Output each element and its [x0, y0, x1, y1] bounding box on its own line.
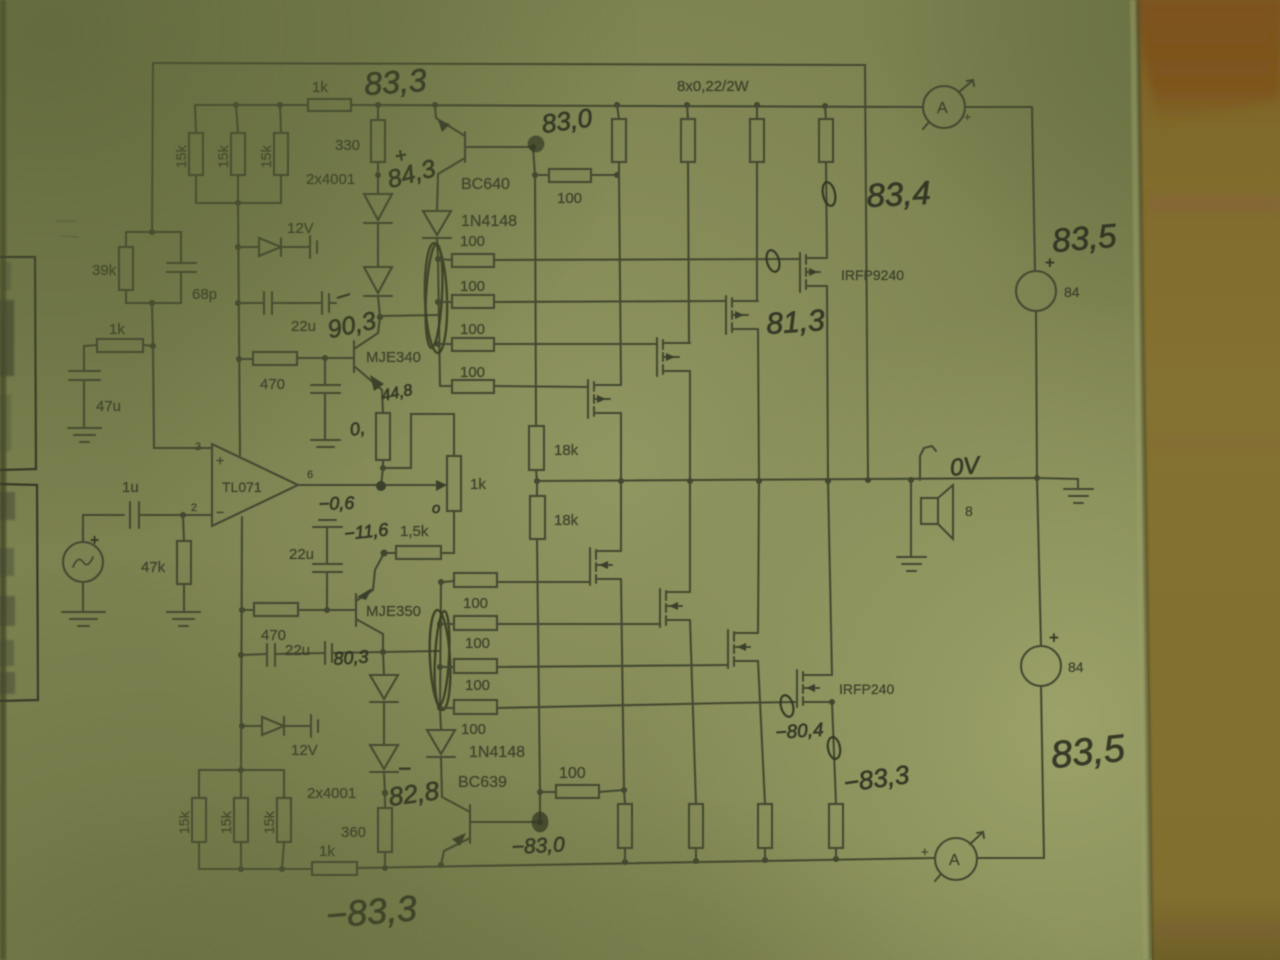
wire feedback top rail: [153, 63, 865, 65]
wire P3 to out: [689, 371, 691, 481]
ellipse scribble bottom: [427, 610, 452, 711]
capacitor 22u bottom pair: [241, 654, 267, 655]
resistor 15k C: [280, 105, 281, 133]
diode 2x4001 bottom B: [370, 745, 398, 769]
wire down to pin3: [153, 346, 212, 448]
wire BC639 node up: [539, 792, 541, 822]
dark left film edge: [0, 0, 6, 960]
wire bias spine upper: [238, 203, 240, 455]
ground 47u: [68, 427, 101, 429]
blob junction -83,0: [532, 812, 548, 832]
node N4 bottom corner: [829, 699, 835, 705]
resistor 1.5k: [396, 546, 441, 559]
node pin2: [180, 512, 186, 518]
wire gate3: [494, 343, 657, 345]
node sense bottom right: [621, 787, 627, 793]
blob junction 83,0: [528, 136, 544, 152]
resistor 100 gate2: [438, 301, 452, 303]
resistor 1k bottom: [312, 862, 357, 875]
wire pot bottom: [441, 511, 454, 553]
resistor 1k input: [97, 339, 143, 352]
svg-text:84: 84: [1068, 659, 1084, 675]
svg-text:8x0,22/2W: 8x0,22/2W: [677, 78, 750, 95]
diode 12V bottom: [242, 725, 262, 727]
capacitor 47u: [84, 345, 97, 371]
transistor MJE340: [353, 341, 355, 372]
wire feedback left vertical: [152, 63, 153, 232]
svg-text:83,4: 83,4: [866, 174, 932, 214]
wire gate4b: [497, 702, 797, 708]
probe 0V hook: [920, 446, 936, 480]
resistor 100 gate2 bottom: [440, 623, 454, 625]
mosfet P3: [656, 338, 658, 376]
resistor 0.22 bottom1: [618, 804, 632, 848]
svg-text:−80,4: −80,4: [775, 720, 824, 744]
resistor 330: [377, 105, 379, 120]
capacitor 68p: [152, 232, 181, 263]
resistor 100 gate3: [438, 343, 452, 345]
node 15k top: [238, 767, 244, 773]
transistor BC639: [442, 797, 470, 812]
svg-text:8: 8: [965, 503, 973, 519]
resistor 15k bottomB: [240, 842, 242, 869]
node bias dots: [235, 244, 242, 362]
diode 1N4148 bottom: [440, 708, 441, 730]
node 470b right: [324, 607, 330, 613]
wire N1 verticals: [620, 481, 622, 551]
node 15k bottom: [235, 200, 241, 206]
svg-text:+: +: [964, 110, 971, 124]
wire +supply rail: [195, 104, 308, 106]
wire gate4: [494, 386, 588, 387]
speaker: [910, 480, 912, 556]
wire right rail down: [1032, 107, 1035, 271]
diode 2x4001 top A: [364, 194, 392, 220]
resistor R 1k top: [308, 99, 351, 111]
capacitor 1u: [83, 514, 124, 516]
wire emitter node to pot top: [383, 414, 454, 468]
node 100 sense left: [532, 172, 538, 178]
wire gate1b: [497, 581, 590, 583]
svg-text:A: A: [937, 100, 948, 117]
mosfet P1 IRFP9240: [799, 253, 801, 292]
wire feedback down to output: [865, 65, 868, 480]
vignette overlays: [0, 0, 640, 540]
wire P4 to out: [620, 413, 622, 481]
ground 47k: [167, 611, 200, 613]
node 330 bottom: [375, 172, 381, 178]
diode 2x4001 bottom A: [383, 652, 384, 675]
wire ladder spine bottom: [440, 582, 441, 708]
resistor MJE340 emitter: [376, 413, 390, 460]
wire collector to ladder spine: [383, 651, 440, 652]
ellipse scribble top: [423, 243, 449, 354]
node 1k right: [150, 343, 156, 349]
printed labels: [92, 78, 1084, 869]
wire pin2 input: [183, 514, 212, 516]
wire bottom rail: [199, 868, 312, 870]
diode 12V top: [238, 246, 259, 248]
resistor 0.22 top4: [825, 106, 826, 119]
wire 39k to 1k node: [152, 303, 153, 346]
node pin6 junction: [376, 481, 386, 491]
wire gate3b: [497, 665, 728, 667]
wire N2 verticals: [689, 481, 691, 592]
node BC639 base right: [537, 819, 543, 825]
ammeter top: [923, 86, 965, 128]
ground source: [82, 582, 84, 611]
resistor 0.22 bottom3: [758, 804, 772, 848]
wire under source: [1036, 311, 1037, 478]
resistor 100 gate4 bottom: [440, 707, 454, 709]
wire N4 verticals: [828, 481, 832, 675]
wire base node down: [533, 147, 535, 175]
wire 18k spine top: [535, 175, 536, 426]
ammeter bottom: [935, 838, 977, 880]
capacitor 22u vertical bottom: [326, 572, 328, 610]
source 84 bottom: [1021, 646, 1061, 686]
wire output node line: [537, 478, 1037, 481]
wire bias spine lower: [241, 517, 242, 770]
resistor 100 gate1 bottom: [441, 581, 444, 583]
pot wiper arrow: [436, 480, 447, 491]
wire P2 to out: [758, 329, 759, 481]
wire bottom right corner: [977, 686, 1044, 858]
node BC640 base: [530, 144, 536, 150]
svg-text:+: +: [1045, 255, 1054, 272]
blob gate4b: [778, 694, 795, 718]
wire chain to ladder spine: [380, 315, 438, 316]
opamp TL071: [212, 444, 298, 526]
resistor 470 top: [239, 358, 253, 360]
mosfet N4 IRFP240: [796, 670, 798, 707]
svg-text:84: 84: [1064, 284, 1080, 300]
resistor 100 gate4: [440, 385, 452, 387]
node ladder dots: [435, 256, 441, 347]
wire 15k bottom tops: [199, 769, 284, 771]
note 90,3 overbar: [337, 294, 350, 298]
diode 2x4001 top B: [364, 267, 392, 293]
node 100b sense left: [537, 789, 543, 795]
node sense right: [614, 172, 620, 178]
wire N3 verticals: [758, 481, 759, 633]
svg-text:81,3: 81,3: [765, 304, 826, 341]
diode 1N4148 top: [423, 211, 451, 235]
resistor 15k bottomC: [282, 842, 284, 869]
node bottom rail dots: [238, 856, 839, 872]
svg-text:83,5: 83,5: [1051, 217, 1119, 260]
source signal: [63, 542, 103, 582]
wire rail after 1k: [351, 105, 923, 107]
blob phase top: [764, 249, 781, 273]
resistor 0.22 top2: [687, 105, 688, 119]
wire ammeter to right rail: [965, 106, 1032, 108]
svg-text:+: +: [1049, 630, 1058, 647]
mosfet N1: [589, 548, 591, 585]
svg-text:83,5: 83,5: [1049, 727, 1128, 777]
ground output right: [1037, 478, 1078, 489]
wire emitter node to out wire: [381, 468, 383, 486]
resistor 18k lower: [536, 481, 538, 496]
node 1.5k left: [381, 550, 388, 557]
handwritten annotations: [90, 62, 1128, 936]
resistor 15k bottomA: [198, 842, 200, 869]
resistor 39k: [126, 232, 152, 247]
resistor 0.22 top3: [756, 105, 758, 119]
wire ladder spine top: [438, 259, 440, 386]
wire bottom rail right part: [357, 858, 935, 868]
node 39k top/bottom: [149, 229, 155, 306]
mosfet N3: [727, 630, 729, 668]
node emitter res bottom: [380, 465, 386, 471]
node 470 right: [322, 355, 328, 361]
source 84 top: [1016, 271, 1056, 311]
transistor BC640: [435, 105, 465, 136]
wire gate2b: [497, 623, 660, 625]
resistor 0.22 bottom4: [829, 804, 843, 848]
wire pin6 out: [298, 484, 436, 486]
node MJE350 collector: [380, 649, 386, 655]
mosfet P4: [587, 380, 589, 418]
wire gate2: [494, 301, 726, 302]
wire to bottom source: [1037, 478, 1041, 646]
left margin: other sheet fragments: [0, 257, 38, 701]
wire 0.22#1 down to P4: [619, 175, 621, 385]
resistor 100 sense bottom: [540, 791, 556, 793]
node output dots: [534, 475, 1040, 484]
wire 15k bottoms: [196, 202, 281, 204]
node 360 top: [382, 790, 388, 796]
blob below 0.22#4: [821, 181, 838, 207]
resistor 100 gate1: [438, 259, 452, 260]
svg-text:0V: 0V: [949, 452, 983, 482]
svg-text:IRFP9240: IRFP9240: [841, 267, 904, 283]
resistor 15k A: [195, 105, 196, 133]
blob below IRFP240: [826, 736, 842, 760]
svg-text:IRFP240: IRFP240: [839, 681, 894, 697]
resistor 15k B: [236, 105, 238, 133]
mosfet N2: [659, 589, 661, 627]
wire P1 to out: [827, 286, 828, 481]
resistor 100 gate3 bottom: [440, 666, 454, 668]
resistor 0.22 bottom2: [689, 804, 703, 848]
transistor MJE350: [355, 594, 357, 626]
node ladder dots bottom: [437, 579, 444, 711]
faint print-through marks: [56, 221, 79, 237]
wooden table on right: [1138, 0, 1280, 960]
node diode chain bottom: [377, 314, 383, 320]
resistor 360: [384, 793, 386, 808]
ground speaker: [897, 556, 926, 558]
resistor 0.22 top1: [617, 105, 619, 119]
node bias dots lower: [238, 607, 245, 729]
mosfet P2: [725, 296, 727, 334]
resistor 47k: [183, 515, 184, 541]
resistor 100 sense top: [535, 174, 549, 176]
resistor 18k upper: [529, 426, 544, 470]
resistor pot 1k: [447, 456, 461, 511]
node rail dots top: [233, 102, 828, 109]
capacitor 22u top pair: [238, 302, 264, 304]
resistor 470 bottom: [242, 609, 254, 611]
capacitor 22u vertical top: [324, 358, 326, 385]
wire gate1: [494, 259, 800, 260]
